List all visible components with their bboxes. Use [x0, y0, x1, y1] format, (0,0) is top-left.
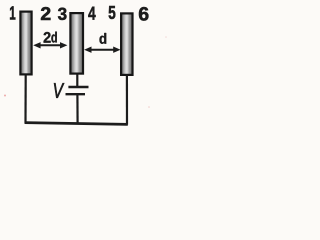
arrow 2d — [33, 42, 67, 48]
wire plate P12 to bottom bus — [24, 75, 26, 123]
label 3 — [58, 8, 67, 20]
label 2 — [41, 7, 50, 20]
label 2d (2) — [44, 32, 51, 43]
plate P34 (surfaces 3,4) — [70, 13, 83, 74]
label 6 — [139, 7, 148, 21]
label 5 — [109, 6, 116, 19]
plate P56 (surfaces 5,6) — [121, 13, 132, 75]
plate P12 (surfaces 1,2) — [20, 12, 31, 75]
bottom bus wire — [25, 123, 128, 125]
wire plate P56 to bottom bus — [126, 76, 128, 125]
arrow d — [84, 47, 121, 53]
label d — [100, 33, 107, 44]
battery bottom plate — [66, 93, 86, 95]
scan speckles — [4, 95, 6, 97]
battery top plate — [68, 86, 88, 88]
wire plate P34 to battery — [76, 74, 78, 87]
label 2d (d) — [51, 32, 56, 43]
label 4 — [88, 7, 95, 20]
label 1 — [10, 6, 15, 19]
label V — [54, 83, 64, 98]
wire battery to bottom bus — [76, 94, 78, 124]
